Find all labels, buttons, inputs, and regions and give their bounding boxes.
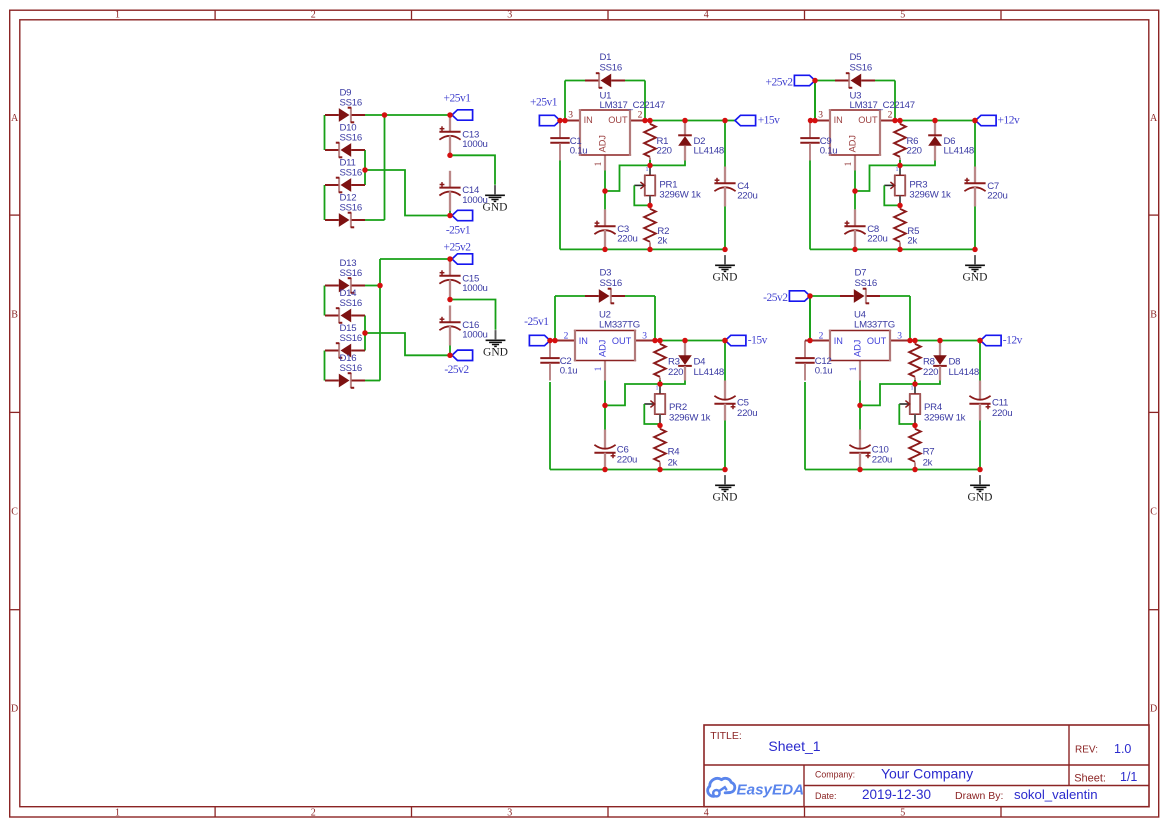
junction bypass right [892,118,898,124]
svg-text:2k: 2k [668,457,678,468]
EasyEDA logo [708,778,804,798]
svg-text:SS16: SS16 [340,202,362,213]
wire bypass right top [875,80,895,82]
svg-text:+25v2: +25v2 [766,76,794,88]
junction rail R bottom [912,467,918,473]
svg-text:220u: 220u [872,454,892,465]
wire output net [655,340,725,342]
junction rail R bottom [647,247,653,253]
svg-text:OUT: OUT [608,115,628,125]
svg-text:Company:: Company: [815,770,855,780]
svg-text:GND: GND [963,271,988,283]
junction C9 top [808,118,814,124]
junction rail R bottom [657,467,663,473]
svg-text:1.0: 1.0 [1114,742,1131,756]
svg-text:IN: IN [579,336,588,346]
wire D13 cathode stub [365,285,380,287]
capacitor C10 [849,430,892,470]
svg-text:0.1u: 0.1u [560,366,578,377]
regulator U4 [810,310,910,381]
svg-text:220u: 220u [992,408,1012,419]
svg-text:1000u: 1000u [462,283,487,294]
wire to C adj cap [859,405,861,429]
svg-text:2: 2 [888,111,893,121]
wire to C adj cap [604,405,606,429]
wire center tap to -25v2 [365,333,450,355]
wire vertical +25v2 column [379,259,381,381]
svg-text:GND: GND [483,346,508,358]
trimmer PR4 [899,386,965,425]
svg-text:1: 1 [896,167,899,173]
wire input vertical U3 [814,81,816,121]
svg-text:1: 1 [844,161,854,166]
wire C out bottom to rail [974,207,976,250]
capacitor C3 [594,209,637,249]
svg-text:LM317_C22147: LM317_C22147 [600,100,665,111]
svg-text:LL4148: LL4148 [949,367,980,378]
junction rail C adj [602,247,608,253]
svg-text:3: 3 [818,111,823,121]
wire right vertical D10 to D11 [364,150,366,185]
svg-text:R7: R7 [923,447,935,458]
svg-text:220u: 220u [737,191,757,202]
svg-text:sokol_valentin: sokol_valentin [1014,787,1098,802]
capacitor C7 [964,167,1007,207]
junction C12 top U4 [807,338,813,344]
wire to C adj cap [854,191,856,209]
svg-text:SS16: SS16 [600,278,622,289]
svg-text:4: 4 [704,807,709,818]
junction input flag U2 [547,338,553,344]
junction +25v2 [447,256,453,262]
svg-text:-12v: -12v [1003,334,1023,346]
junction divider mid [912,381,918,387]
svg-text:220: 220 [668,367,683,378]
svg-text:PR2: PR2 [669,402,687,413]
svg-text:D3: D3 [600,268,612,279]
svg-text:1000u: 1000u [462,330,487,341]
diode D4 [678,341,724,381]
svg-text:ADJ: ADJ [852,340,862,357]
svg-text:Sheet_1: Sheet_1 [768,738,820,754]
wire output net [895,120,975,122]
svg-text:LM337TG: LM337TG [599,320,640,331]
svg-text:-25v2: -25v2 [763,292,788,304]
svg-text:R8: R8 [923,357,935,368]
wire D16 cathode stub [365,380,380,382]
svg-text:2: 2 [311,9,316,20]
svg-text:SS16: SS16 [340,298,362,309]
svg-text:OUT: OUT [867,336,887,346]
svg-text:220u: 220u [617,233,637,244]
ground GND block2 [483,330,508,358]
svg-text:C11: C11 [992,398,1008,409]
svg-text:220u: 220u [737,408,757,419]
svg-text:+25v1: +25v1 [530,97,558,109]
svg-text:EasyEDA: EasyEDA [737,782,805,799]
ground GND U4 [968,475,993,503]
wire C16 bottom stub [449,345,451,355]
svg-text:OUT: OUT [612,336,632,346]
wire ADJ to divider [605,165,650,191]
svg-text:1000u: 1000u [462,139,487,150]
svg-text:Date:: Date: [815,791,837,801]
wire ADJ pin down [854,171,856,192]
svg-text:3296W 1k: 3296W 1k [659,189,701,200]
resistor R6 [894,121,922,165]
svg-text:LM317_C22147: LM317_C22147 [850,100,915,111]
svg-text:220: 220 [657,146,672,157]
svg-text:LL4148: LL4148 [944,146,975,157]
svg-text:B: B [1150,309,1157,320]
wire left vertical D9 anode to D10 cathode [324,115,326,150]
junction R top [912,338,918,344]
svg-text:ADJ: ADJ [597,135,607,152]
ground GND U2 [713,475,738,503]
svg-text:LM337TG: LM337TG [854,320,895,331]
net flag -12v [981,335,1002,345]
junction R top [897,118,903,124]
diode D6 [928,121,974,161]
junction R top [647,118,653,124]
svg-text:SS16: SS16 [340,97,362,108]
wire input stub [560,120,565,122]
svg-text:1: 1 [115,9,120,20]
junction input flag U3 [812,78,818,84]
junction divider mid [897,163,903,169]
junction rail C adj [857,467,863,473]
svg-text:D5: D5 [850,52,862,63]
junction ADJ [857,403,863,409]
wire C out bottom to rail [724,421,726,470]
junction input flag U4 [807,293,813,299]
svg-text:3296W 1k: 3296W 1k [669,413,711,424]
capacitor C8 [844,209,887,249]
wire input cap to rail [804,382,806,470]
junction C out [722,338,728,344]
wire output to C out top [724,341,726,381]
svg-text:2: 2 [638,111,643,121]
svg-text:SS16: SS16 [340,167,362,178]
diode D15 [325,323,365,358]
svg-text:D: D [11,703,18,714]
wire output to C out top [724,121,726,167]
wire ground rail [805,469,980,471]
junction C13-C14 midpoint [447,153,453,159]
wire bypass left vertical [814,81,816,121]
junction pot bottom [912,423,918,429]
svg-text:SS16: SS16 [850,63,872,74]
trimmer PR1 [634,167,701,206]
net flag +25v1 input U1 [539,115,560,125]
wire center tap to -25v1 [365,170,450,216]
wire protection diode to divider [915,381,940,385]
wire divider to protection diode [900,161,935,166]
svg-text:R3: R3 [668,357,680,368]
capacitor C13 [439,115,487,155]
svg-text:SS16: SS16 [855,278,877,289]
svg-text:-25v1: -25v1 [446,225,471,237]
svg-text:2k: 2k [657,236,667,247]
wire center tap to ground [450,300,496,330]
svg-text:+15v: +15v [758,114,780,126]
diode D16 [325,353,365,388]
junction divider mid [647,163,653,169]
svg-text:C5: C5 [737,398,749,409]
svg-text:1: 1 [115,807,120,818]
junction rail C out [972,247,978,253]
net flag +25v2 [452,254,473,264]
svg-text:Sheet:: Sheet: [1074,773,1106,785]
svg-text:5: 5 [900,9,905,20]
wire input stub [810,120,815,122]
svg-text:2: 2 [311,807,316,818]
svg-text:Your Company: Your Company [881,766,973,782]
diode D3 [585,268,625,304]
wire bypass right top [625,295,655,297]
svg-text:5: 5 [900,807,905,818]
svg-text:220: 220 [907,146,922,157]
wire D12 cathode stub [365,219,385,221]
diode D13 [325,258,365,293]
junction C out [972,118,978,124]
svg-text:2019-12-30: 2019-12-30 [862,787,931,802]
svg-text:220u: 220u [617,454,637,465]
wire bypass left top [565,80,585,82]
wire bypass right vertical [894,81,896,121]
wire output net [910,340,980,342]
svg-text:A: A [11,113,19,124]
ground GND U1 [713,255,738,283]
diode D9 [325,88,365,123]
svg-text:2k: 2k [907,236,917,247]
svg-text:TITLE:: TITLE: [710,730,742,742]
junction center tap D14-D15 [362,330,368,336]
wire input cap to rail [559,161,561,250]
svg-text:C: C [11,506,18,517]
svg-text:IN: IN [834,115,843,125]
junction C7 at +12v flag [972,118,978,124]
regulator U1 [565,91,665,171]
svg-text:1: 1 [594,366,604,371]
svg-text:GND: GND [713,491,738,503]
svg-text:3: 3 [507,9,512,20]
junction rail C out [977,467,983,473]
net flag -25v1 [452,210,473,220]
junction bypass right [652,338,658,344]
junction +25v1 [447,112,453,118]
diode D10 [325,123,365,158]
junction R top [657,338,663,344]
wire ground rail [560,248,725,250]
junction C5 at -15v flag [722,338,728,344]
net flag +25v1 [452,110,473,120]
wire bypass right vertical [909,296,911,341]
svg-text:OUT: OUT [858,115,878,125]
svg-text:0.1u: 0.1u [820,146,838,157]
junction -25v1 [447,213,453,219]
wire input cap to rail [549,382,551,470]
svg-text:1/1: 1/1 [1120,770,1137,784]
junction bypass left U1 [562,118,568,124]
wire input cap to rail [809,161,811,250]
svg-text:3296W 1k: 3296W 1k [924,413,966,424]
svg-text:C: C [1150,506,1157,517]
regulator U3 [815,91,915,171]
wire vertical junction column to D12 row [384,115,386,220]
capacitor C14 [439,171,487,211]
svg-text:SS16: SS16 [340,333,362,344]
svg-text:-15v: -15v [748,334,768,346]
resistor R2 [644,205,669,249]
capacitor C2 [540,341,577,381]
junction bypass left U2 [552,338,558,344]
junction D protection [682,338,688,344]
svg-text:IN: IN [834,336,843,346]
svg-text:D1: D1 [600,52,612,63]
wire input vertical U4 [809,296,811,341]
svg-text:GND: GND [483,201,508,213]
junction rail C out [722,467,728,473]
net flag -25v2 [452,350,473,360]
svg-text:SS16: SS16 [340,268,362,279]
resistor R7 [909,425,934,469]
svg-text:0.1u: 0.1u [815,366,833,377]
wire ground rail [810,248,975,250]
svg-text:2k: 2k [923,457,933,468]
capacitor C4 [714,167,757,207]
svg-text:Drawn By:: Drawn By: [955,790,1003,802]
wire divider to protection diode [650,161,685,166]
svg-text:1: 1 [656,386,659,392]
junction C out [977,338,983,344]
wire D9 cathode to +25v1 flag [365,114,450,116]
diode D7 [840,268,880,304]
svg-text:3: 3 [507,807,512,818]
junction D protection [937,338,943,344]
svg-text:GND: GND [713,271,738,283]
svg-text:1: 1 [911,386,914,392]
svg-text:1: 1 [646,167,649,173]
wire left vertical D15-D16 [324,351,326,381]
trimmer PR2 [644,386,710,425]
ground GND block1 [483,185,508,213]
svg-text:SS16: SS16 [340,132,362,143]
junction D13 cathode [377,283,383,289]
svg-text:ADJ: ADJ [597,340,607,357]
svg-text:REV:: REV: [1075,745,1098,756]
net flag +25v2 input U3 [794,75,815,85]
wire bypass right vertical [654,296,656,341]
junction ADJ [602,188,608,194]
wire bypass right vertical [644,81,646,121]
junction rail C adj [602,467,608,473]
wire bypass left vertical [809,296,811,341]
ground GND U3 [963,255,988,283]
junction input flag U1 [557,118,563,124]
junction rail C out [722,247,728,253]
capacitor C11 [969,381,1012,421]
wire output net [645,120,735,122]
svg-text:LL4148: LL4148 [694,367,725,378]
capacitor C9 [800,121,837,161]
title block [704,725,1149,807]
svg-text:3296W 1k: 3296W 1k [909,189,951,200]
svg-text:2: 2 [564,332,569,342]
wire right vertical D14-D15 [364,316,366,351]
junction divider mid [657,381,663,387]
svg-text:2: 2 [819,332,824,342]
diode D14 [325,288,365,323]
svg-text:220u: 220u [867,233,887,244]
svg-text:D4: D4 [694,357,707,368]
junction D protection [682,118,688,124]
diode D5 [835,52,875,88]
wire to +25v2 flag [380,258,450,260]
resistor R1 [644,121,672,165]
junction D protection [932,118,938,124]
svg-text:-25v1: -25v1 [524,316,549,328]
svg-text:GND: GND [968,491,993,503]
diode D8 [933,341,979,381]
junction pot bottom [657,423,663,429]
wire ADJ pin down [859,381,861,406]
svg-text:ADJ: ADJ [847,135,857,152]
diode D1 [585,52,625,88]
regulator U2 [555,310,655,381]
svg-text:LL4148: LL4148 [694,146,725,157]
net flag +12v [976,115,997,125]
wire bypass left top [810,295,840,297]
capacitor C6 [594,430,637,470]
resistor R3 [654,341,683,385]
wire C out bottom to rail [724,207,726,250]
svg-text:3: 3 [642,332,647,342]
svg-text:D: D [1150,703,1157,714]
svg-text:R4: R4 [668,447,681,458]
diode D2 [678,121,724,161]
resistor R4 [654,425,680,469]
junction C15-C16 midpoint [447,297,453,303]
wire ADJ pin down [604,381,606,406]
wire left vertical D11 to D12 [324,185,326,220]
wire C12 stub [805,340,810,342]
svg-text:0.1u: 0.1u [570,146,588,157]
svg-text:+25v1: +25v1 [444,93,472,105]
wire output to C out top [979,341,981,381]
svg-text:220: 220 [923,367,938,378]
wire C14 bottom stub [449,211,451,216]
wire ADJ to divider [855,165,900,191]
wire bypass right top [880,295,910,297]
net flag -25v2 input U4 [789,291,810,301]
wire input stub [550,340,555,342]
wire output to C out top [974,121,976,167]
wire left vertical D13-D14 [324,286,326,316]
junction C out [722,118,728,124]
wire ADJ pin down [604,171,606,192]
trimmer PR3 [884,167,951,206]
junction pot bottom [897,203,903,209]
svg-text:D8: D8 [949,357,961,368]
svg-text:SS16: SS16 [340,363,362,374]
svg-text:IN: IN [584,115,593,125]
wire bypass left vertical [554,296,556,341]
wire bypass left vertical [564,81,566,121]
junction rail C adj [852,247,858,253]
junction ADJ [852,188,858,194]
wire ADJ to divider [860,384,915,405]
